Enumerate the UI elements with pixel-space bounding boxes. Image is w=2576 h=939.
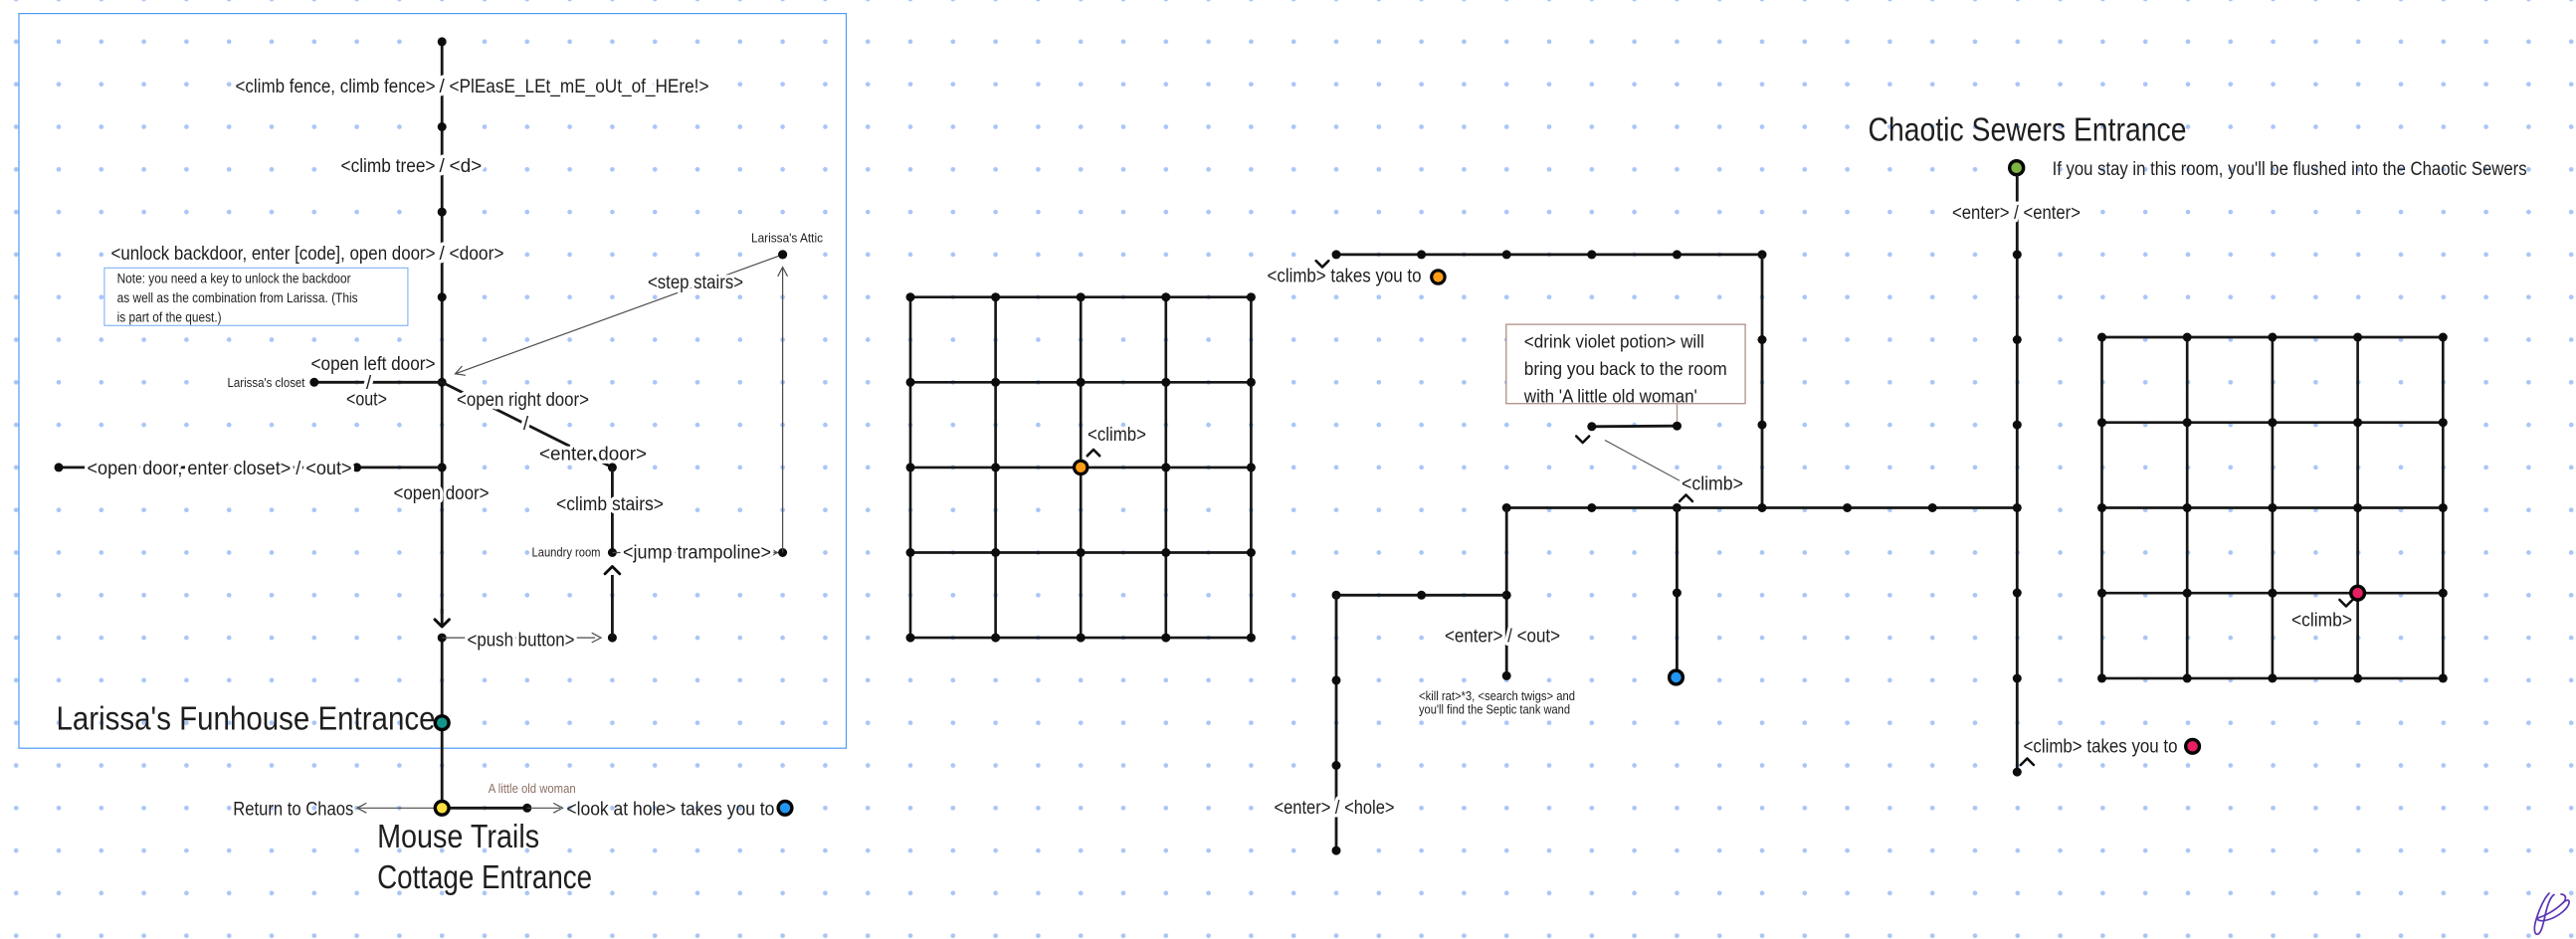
caret down potion [1576, 437, 1589, 444]
signature flourish [2534, 893, 2569, 934]
node Larissa's Attic [778, 250, 787, 259]
wire vertical 1343 [1335, 595, 1338, 850]
svg-text:as well as the combination fro: as well as the combination from Larissa.… [117, 290, 358, 305]
wire climb stairs [611, 468, 614, 553]
arrow up to laundry [611, 575, 614, 638]
wire vertical 1514 [1505, 508, 1508, 676]
node closet2 left end [55, 463, 64, 471]
svg-text:<open right door>: <open right door> [457, 390, 589, 411]
svg-text:<drink violet potion> will: <drink violet potion> will [1524, 332, 1704, 352]
vertical 1343 nodes [1332, 675, 1341, 684]
svg-text:with 'A little old woman': with 'A little old woman' [1523, 387, 1697, 407]
svg-text:<climb tree>: <climb tree> [341, 156, 436, 177]
drink violet potion note box [1506, 324, 1745, 404]
room node climb target (pink) [2186, 739, 2200, 753]
room node maze2 (pink) [2351, 586, 2365, 600]
svg-text:<jump trampoline>: <jump trampoline> [623, 543, 771, 564]
node backdoor/leftdoor [438, 292, 447, 301]
caret up grid1 [1088, 450, 1099, 456]
svg-text:/: / [440, 156, 446, 177]
svg-text:Mouse Trails: Mouse Trails [377, 818, 539, 854]
svg-text:Cottage Entrance: Cottage Entrance [377, 858, 592, 895]
svg-text:<out>: <out> [346, 390, 387, 411]
wire trampoline to attic arrow [782, 269, 784, 553]
svg-text:/: / [440, 77, 446, 97]
node left-door junction [438, 378, 447, 387]
room node cottage entrance (yellow) [435, 801, 449, 815]
svg-text:<climb>: <climb> [1682, 474, 1743, 495]
node push right [608, 634, 617, 643]
svg-text:<d>: <d> [450, 156, 483, 177]
node h3 mid [1417, 591, 1426, 600]
svg-text:A little old woman: A little old woman [489, 781, 576, 796]
svg-text:Larissa's closet: Larissa's closet [228, 375, 305, 390]
vertical 1771 nodes [1758, 335, 1767, 344]
node Larissa's closet [309, 378, 318, 387]
sewer mid horizontal nodes [1502, 503, 1511, 512]
wire Larissa's closet line [314, 381, 442, 384]
wire return to chaos arrow [359, 807, 442, 809]
room node climb target (orange) [1432, 271, 1445, 283]
node fence/tree [438, 122, 447, 131]
room node sewers entrance (green) [2010, 161, 2024, 175]
svg-text:<enter door>: <enter door> [539, 445, 647, 466]
svg-text:<open door, enter closet> / <o: <open door, enter closet> / <out> [88, 459, 352, 479]
svg-text:<unlock backdoor, enter [code]: <unlock backdoor, enter [code], open doo… [111, 244, 436, 265]
wire funhouse trunk upper [441, 42, 444, 614]
node enter door [608, 463, 617, 471]
svg-text:<PlEasE_LEt_mE_oUt_of_HEre!>: <PlEasE_LEt_mE_oUt_of_HEre!> [450, 77, 709, 97]
wire look-at-hole arrow [527, 807, 560, 809]
wire potion pointer diagonal [1605, 441, 1680, 481]
room node funhouse entrance (teal) [435, 716, 449, 730]
wire sewer top horizontal [1336, 253, 1762, 256]
svg-text:<climb> takes you to: <climb> takes you to [1268, 267, 1422, 287]
Larissa's Funhouse boundary box [19, 14, 847, 749]
svg-text:<door>: <door> [450, 244, 504, 265]
svg-text:<push button>: <push button> [468, 631, 575, 652]
wire open right door diagonal [442, 382, 612, 468]
svg-text:/: / [440, 244, 446, 265]
note box (key + combination) [104, 268, 408, 325]
node fence top [438, 37, 447, 46]
node v1514 at h3 [1502, 591, 1511, 600]
caret up mid [1680, 495, 1692, 502]
wire horizontal 3 [1336, 594, 1506, 597]
wire sewer mid horizontal [1506, 506, 2018, 509]
maze grid 1 nodes [906, 292, 915, 301]
wire vertical 1771 [1761, 255, 1764, 508]
room node septic (blue) [1670, 670, 1684, 684]
node v1685 mid [1673, 589, 1682, 598]
node v1514 end [1502, 671, 1511, 680]
node closet-line junction [438, 463, 447, 471]
node potion right [1673, 422, 1682, 431]
svg-text:is part of the quest.): is part of the quest.) [117, 310, 222, 325]
node sewer vertical end [2013, 768, 2022, 777]
svg-text:Larissa's Attic: Larissa's Attic [751, 231, 823, 246]
sewer top horizontal nodes [1332, 250, 1341, 259]
svg-text:Laundry room: Laundry room [532, 545, 601, 560]
svg-text:Chaotic Sewers Entrance: Chaotic Sewers Entrance [1869, 111, 2187, 148]
svg-text:bring you back to the room: bring you back to the room [1524, 359, 1727, 379]
svg-text:<climb>: <climb> [2291, 611, 2352, 632]
svg-text:<climb fence, climb fence>: <climb fence, climb fence> [236, 77, 436, 97]
node hole mid [522, 804, 531, 813]
svg-text:<climb> takes you to: <climb> takes you to [2024, 737, 2178, 758]
svg-text:<enter> / <out>: <enter> / <out> [1445, 627, 1560, 648]
svg-text:<climb>: <climb> [1088, 425, 1146, 446]
maze grid 2 (5x5 lines) [2102, 336, 2444, 339]
wire sewer vertical [2016, 175, 2019, 772]
svg-text:Larissa's Funhouse Entrance: Larissa's Funhouse Entrance [57, 700, 436, 737]
wire funhouse trunk lower [441, 638, 444, 808]
wire potion line [1592, 425, 1678, 428]
svg-text:Note: you need a key to unlock: Note: you need a key to unlock the backd… [117, 272, 351, 286]
svg-text:<enter> / <hole>: <enter> / <hole> [1275, 798, 1395, 819]
maze grid 1 (5x5 lines) [910, 295, 1251, 298]
svg-text:<enter> / <enter>: <enter> / <enter> [1952, 203, 2081, 224]
wire potion box connector [1677, 404, 1679, 427]
svg-text:/: / [523, 414, 529, 435]
svg-text:<step stairs>: <step stairs> [648, 273, 743, 293]
caret down grid2 [2339, 600, 2352, 607]
svg-text:<climb stairs>: <climb stairs> [556, 494, 664, 515]
node laundry room [608, 548, 617, 557]
svg-text:<look at hole> takes you to: <look at hole> takes you to [566, 800, 774, 821]
arrow down to push-button node [435, 620, 449, 627]
maze grid 2 nodes [2097, 333, 2106, 342]
svg-text:Return to Chaos: Return to Chaos [233, 800, 353, 821]
room node hole target (blue) [778, 801, 792, 815]
caret up sewer bottom [2021, 759, 2034, 766]
svg-text:<open left door>: <open left door> [311, 354, 436, 375]
svg-text:<open door>: <open door> [394, 483, 490, 504]
sewer vertical nodes [2013, 250, 2022, 259]
wire open door enter closet line [59, 466, 442, 469]
node h3 left [1332, 591, 1341, 600]
node push button [438, 634, 447, 643]
room node maze1 center (orange) [1075, 461, 1088, 473]
caret down below top-line start [1316, 261, 1329, 267]
wire vertical 1685 [1676, 508, 1679, 671]
wire push button pointer [442, 637, 595, 639]
svg-text:you'll find the Septic tank wa: you'll find the Septic tank wand [1419, 701, 1570, 716]
wire look-at-hole line [442, 807, 527, 810]
wire jump trampoline [612, 552, 777, 554]
node trampoline [778, 548, 787, 557]
svg-text:If you stay in this room, you': If you stay in this room, you'll be flus… [2053, 159, 2527, 180]
node tree/backdoor [438, 208, 447, 217]
node closet2 mid [352, 463, 361, 471]
node potion left [1587, 422, 1596, 431]
wire step stairs arrow [456, 255, 783, 374]
